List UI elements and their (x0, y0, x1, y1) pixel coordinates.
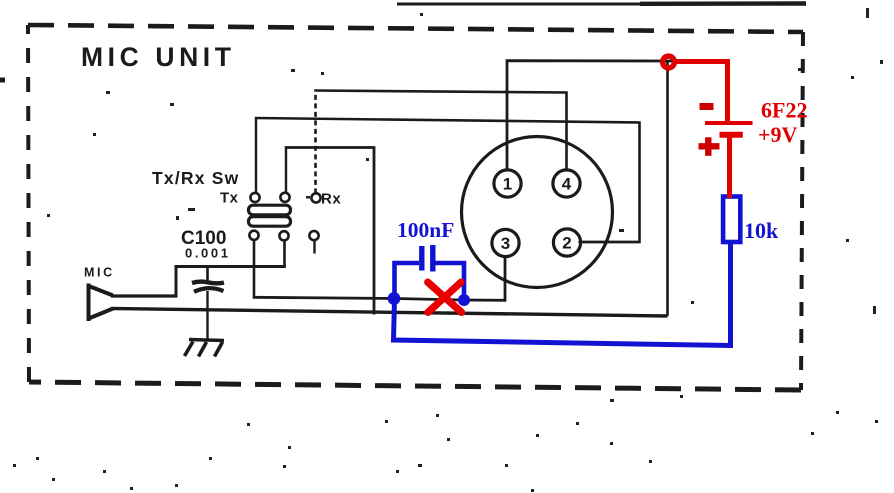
junction dot right (blue) (458, 294, 470, 306)
wire: right vertical return to supply node (666, 60, 669, 316)
svg-text:2: 2 (562, 234, 571, 253)
svg-text:1: 1 (503, 175, 512, 194)
scan artifacts: top edge line and speckles (0, 4, 806, 81)
capacitor 100nF (blue plates) (422, 245, 433, 272)
resistor 10k (blue body) (723, 197, 740, 243)
svg-text:4: 4 (562, 175, 572, 194)
svg-text:3: 3 (501, 234, 510, 253)
wire: pin 2 right to branch (579, 241, 640, 244)
svg-text:MIC: MIC (84, 266, 115, 280)
node: supply tap (red ring) (663, 56, 675, 68)
wire (blue): bypass run to resistor bottom (394, 243, 731, 346)
wire (blue): cap right branch (435, 263, 465, 300)
wire: pin 1 up to supply bus H1 (507, 61, 676, 170)
junction dot left (blue) (388, 292, 401, 305)
svg-text:10k: 10k (744, 218, 779, 243)
ground (chassis) (185, 340, 225, 357)
svg-text:0.001: 0.001 (185, 246, 231, 261)
X cut mark (red) over replaced wire section (428, 282, 462, 312)
wire: switch b3 stub (313, 241, 315, 254)
wire: mic top lead (111, 294, 177, 297)
pin 4 (553, 170, 580, 197)
battery BT1 6F22 9V (705, 123, 753, 198)
pin 2 (553, 229, 580, 256)
wire (blue): bypass loop left branch to cap (395, 263, 420, 299)
wire: jog up to switch common bus (175, 265, 178, 297)
wire: switch pole1 bottom down to audio line (253, 241, 256, 299)
svg-text:Tx: Tx (220, 190, 239, 207)
wire: mic return lead (lower) (111, 309, 668, 317)
MIC UNIT enclosure (dashed border) (28, 25, 803, 390)
pin 3 (492, 229, 519, 256)
wire: bus H2 to pin 4 (314, 91, 566, 171)
svg-text:100nF: 100nF (397, 218, 454, 242)
wire: audio line to connector pin 3 (crossed out section) (253, 256, 505, 300)
microphone MIC (88, 284, 114, 322)
svg-text:6F22: 6F22 (761, 98, 807, 123)
wire: switch c2 up (285, 147, 287, 194)
wire: c2 bus over connector, down to return (285, 148, 374, 315)
svg-text:Rx: Rx (321, 191, 341, 208)
switch S1 Tx/Rx (249, 193, 321, 241)
capacitor C100 (192, 267, 224, 341)
wire: switch c1 up to top bus (255, 118, 257, 194)
wire: switch common bus (175, 265, 286, 268)
svg-text:+9V: +9V (758, 122, 798, 147)
wire: switch c3 up (spotty scan) (314, 92, 317, 193)
battery plus mark (699, 137, 720, 156)
svg-text:Tx/Rx Sw: Tx/Rx Sw (152, 168, 239, 188)
wire (red): supply node to battery (674, 62, 728, 122)
wire: switch pole2 bottom down to common bus (283, 241, 286, 267)
connector J1 (4-pin round) (462, 137, 613, 288)
wire: top bus H3 to pin2 branch (255, 118, 640, 242)
svg-text:MIC UNIT: MIC UNIT (81, 42, 236, 72)
battery minus mark (700, 103, 714, 110)
pin 1 (494, 170, 521, 197)
